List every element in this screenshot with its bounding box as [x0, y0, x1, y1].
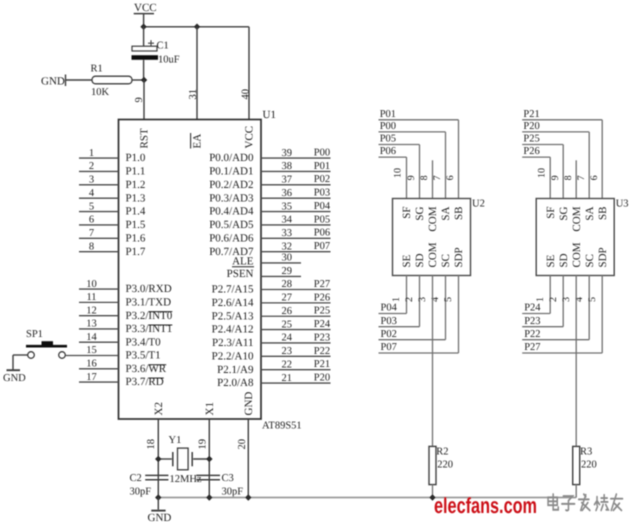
- ground symbol at SP1: [3, 370, 26, 384]
- U1 pin 25 P2.4/A12 net P24: [212, 319, 331, 336]
- pushbutton SP1: [26, 329, 67, 358]
- U1 pin 5 P1.4: [79, 201, 146, 217]
- svg-text:EA: EA: [192, 134, 204, 149]
- svg-text:22: 22: [282, 359, 293, 370]
- U1 pin 37 P0.2/AD2 net P02: [209, 174, 330, 191]
- svg-text:P25: P25: [314, 306, 330, 317]
- svg-text:SD: SD: [414, 253, 426, 267]
- wire VCC rail to pin 40 branch: [144, 26, 249, 28]
- svg-text:P1.3: P1.3: [126, 192, 146, 204]
- ground symbol at crystal: [148, 498, 172, 525]
- svg-text:GND: GND: [148, 512, 172, 524]
- svg-text:X1: X1: [204, 402, 216, 415]
- svg-text:9: 9: [406, 175, 417, 180]
- svg-text:P1.4: P1.4: [126, 206, 146, 218]
- svg-text:P03: P03: [381, 316, 397, 327]
- U1 pin 30 ALE: [232, 253, 301, 268]
- svg-text:220: 220: [581, 460, 597, 471]
- svg-text:R3: R3: [580, 447, 592, 458]
- svg-text:PSEN: PSEN: [227, 268, 254, 280]
- junction crystal right: [206, 456, 213, 463]
- svg-text:32: 32: [282, 241, 293, 252]
- U1 pin 24 P2.3/A11 net P23: [212, 332, 330, 349]
- svg-text:SC: SC: [584, 254, 596, 267]
- svg-text:P20: P20: [314, 372, 330, 383]
- net P21 wire to U3 pin 6: [522, 109, 602, 199]
- U2 COM top stub pin 8: [419, 160, 432, 198]
- svg-text:220: 220: [437, 460, 453, 471]
- svg-text:P05: P05: [380, 134, 396, 145]
- svg-text:11: 11: [86, 292, 96, 303]
- svg-text:SDP: SDP: [453, 247, 465, 267]
- svg-text:29: 29: [282, 266, 293, 277]
- svg-text:26: 26: [282, 306, 293, 317]
- svg-text:COM: COM: [571, 242, 583, 267]
- svg-text:8: 8: [89, 241, 94, 252]
- U1 pin 11 P3.1/TXD: [79, 292, 171, 308]
- net P05 wire to U2 pin 9: [379, 134, 420, 199]
- svg-text:U1: U1: [263, 109, 276, 121]
- svg-text:VCC: VCC: [244, 126, 256, 149]
- svg-text:5: 5: [443, 297, 454, 302]
- svg-text:SA: SA: [440, 206, 452, 220]
- net P01 wire to U2 pin 6: [379, 109, 459, 199]
- U1 pin 19 wire (X1) with number: [198, 419, 210, 498]
- U1 pin 39 P0.0/AD0 net P00: [209, 148, 330, 165]
- svg-text:2: 2: [404, 297, 415, 302]
- U1 pin 16 P3.6/WR: [79, 358, 167, 374]
- svg-text:34: 34: [282, 215, 293, 226]
- connector U2 (7-seg display): [393, 199, 485, 276]
- svg-text:P26: P26: [314, 292, 330, 303]
- net P06 wire to U2 pin 10: [379, 146, 407, 198]
- svg-text:SDP: SDP: [597, 247, 609, 267]
- svg-text:P22: P22: [314, 346, 330, 357]
- U1 pin 1 P1.0: [79, 148, 146, 164]
- svg-text:36: 36: [282, 188, 293, 199]
- svg-text:P21: P21: [523, 109, 539, 120]
- junction bus pin20: [245, 494, 252, 501]
- wire VCC rail to pin 40 with number 40: [240, 27, 251, 120]
- svg-text:P27: P27: [524, 342, 540, 353]
- svg-text:P04: P04: [314, 201, 331, 212]
- net P00 wire to U2 pin 7: [379, 121, 446, 199]
- svg-text:GND: GND: [41, 76, 65, 88]
- resistor R1 10K: [66, 64, 144, 99]
- svg-text:P26: P26: [523, 146, 539, 157]
- svg-text:P06: P06: [314, 228, 330, 239]
- svg-text:SG: SG: [558, 206, 570, 220]
- U1 pin 28 P2.7/A15 net P27: [212, 279, 331, 296]
- wire EA rail to pin 31 with number 31: [188, 27, 199, 120]
- svg-text:6: 6: [89, 215, 94, 226]
- svg-text:30pF: 30pF: [130, 487, 152, 498]
- svg-text:P1.6: P1.6: [126, 232, 146, 244]
- svg-text:6: 6: [445, 175, 456, 180]
- U1 pin 20 wire (GND) with number: [237, 419, 249, 498]
- net P25 wire to U3 pin 9: [522, 134, 563, 199]
- svg-text:P22: P22: [524, 329, 540, 340]
- svg-text:COM: COM: [427, 242, 439, 267]
- svg-text:P02: P02: [314, 174, 330, 185]
- svg-text:8: 8: [419, 175, 430, 180]
- svg-text:P0.1/AD1: P0.1/AD1: [209, 166, 253, 178]
- svg-text:P07: P07: [381, 342, 397, 353]
- svg-text:Y1: Y1: [169, 435, 182, 446]
- resistor R2 220: [429, 446, 453, 497]
- svg-text:SA: SA: [584, 206, 596, 220]
- net P24 wire to U3 pin 1: [522, 276, 550, 314]
- svg-text:R1: R1: [91, 64, 103, 75]
- junction bus X2: [155, 494, 162, 501]
- svg-text:SE: SE: [401, 254, 413, 267]
- U1 pin 32 P0.7/AD7 net P07: [209, 241, 330, 258]
- U1 pin 13 P3.3/INT1: [79, 319, 172, 335]
- svg-text:P04: P04: [381, 303, 398, 314]
- U1 pin 34 P0.5/AD5 net P05: [209, 214, 330, 231]
- capacitor C1 (10uF) with plus mark: [132, 27, 180, 80]
- svg-text:7: 7: [89, 228, 94, 239]
- svg-text:31: 31: [188, 89, 199, 100]
- svg-text:9: 9: [550, 175, 561, 180]
- svg-text:3: 3: [89, 175, 94, 186]
- svg-text:10uF: 10uF: [158, 55, 180, 66]
- U1 pin 36 P0.3/AD3 net P03: [209, 188, 330, 205]
- svg-text:P0.4/AD4: P0.4/AD4: [209, 206, 254, 218]
- svg-text:6: 6: [589, 175, 600, 180]
- net P27 wire to U3 pin 5: [522, 276, 602, 354]
- svg-text:30pF: 30pF: [222, 487, 244, 498]
- net P22 wire to U3 pin 4: [522, 276, 589, 340]
- svg-text:4: 4: [89, 188, 95, 199]
- U1 pin 18 wire (X2) with number: [146, 419, 158, 498]
- svg-text:SE: SE: [545, 254, 557, 267]
- net P02 wire to U2 pin 4: [379, 276, 446, 340]
- capacitor C2 30pF: [130, 473, 169, 498]
- svg-text:2: 2: [548, 297, 559, 302]
- svg-text:20: 20: [237, 439, 248, 450]
- svg-text:24: 24: [282, 333, 293, 344]
- svg-text:GND: GND: [243, 392, 255, 416]
- U1 pin 33 P0.6/AD6 net P06: [209, 228, 330, 245]
- svg-text:P2.5/A13: P2.5/A13: [212, 310, 254, 322]
- connector U3 (7-seg display): [536, 199, 628, 276]
- svg-text:23: 23: [282, 346, 293, 357]
- svg-text:37: 37: [282, 175, 293, 186]
- svg-text:18: 18: [146, 439, 157, 450]
- svg-text:AT89S51: AT89S51: [262, 421, 302, 432]
- svg-text:P02: P02: [381, 329, 397, 340]
- svg-text:SC: SC: [440, 254, 452, 267]
- svg-text:12: 12: [86, 305, 97, 316]
- svg-text:25: 25: [282, 319, 293, 330]
- svg-text:SP1: SP1: [26, 329, 43, 340]
- resistor R3 220: [573, 446, 597, 497]
- U3 COM top stub pin 8: [563, 160, 576, 198]
- svg-text:P0.0/AD0: P0.0/AD0: [209, 152, 254, 164]
- svg-text:P21: P21: [314, 359, 330, 370]
- net P03 wire to U2 pin 2: [379, 276, 420, 327]
- U1 pin 7 P1.6: [79, 228, 146, 244]
- svg-text:P0.6/AD6: P0.6/AD6: [209, 232, 254, 244]
- svg-text:R2: R2: [436, 447, 448, 458]
- svg-text:P3.0/RXD: P3.0/RXD: [126, 283, 172, 295]
- svg-text:P03: P03: [314, 188, 330, 199]
- net P04 wire to U2 pin 1: [379, 276, 407, 314]
- wire RST node to pin 9 with number 9: [134, 80, 145, 120]
- U1 pin 2 P1.1: [79, 161, 145, 177]
- svg-text:7: 7: [576, 175, 587, 180]
- svg-text:P23: P23: [314, 332, 330, 343]
- svg-text:1: 1: [89, 148, 94, 159]
- svg-text:15: 15: [86, 345, 97, 356]
- svg-text:30: 30: [282, 253, 293, 264]
- wire SP1 to GND: [13, 355, 28, 370]
- svg-text:16: 16: [86, 358, 97, 369]
- U2 COM bottom wire pin 3 to resistor: [417, 276, 432, 447]
- svg-text:P20: P20: [523, 121, 539, 132]
- svg-text:5: 5: [587, 297, 598, 302]
- svg-text:SB: SB: [597, 207, 609, 220]
- net P20 wire to U3 pin 7: [522, 121, 589, 199]
- svg-text:P0.3/AD3: P0.3/AD3: [209, 192, 254, 204]
- U1 pin 27 P2.6/A14 net P26: [212, 292, 331, 309]
- svg-text:elecfans.com: elecfans.com: [434, 493, 537, 518]
- svg-text:P23: P23: [524, 316, 540, 327]
- svg-text:1: 1: [391, 297, 402, 302]
- svg-text:39: 39: [282, 148, 293, 159]
- svg-text:1: 1: [535, 297, 546, 302]
- power symbol VCC: [134, 2, 157, 27]
- U1 pin 12 P3.2/INT0: [79, 305, 173, 321]
- svg-text:P3.1/TXD: P3.1/TXD: [126, 296, 172, 308]
- svg-text:3: 3: [561, 297, 572, 302]
- U1 pin 8 P1.7: [79, 241, 146, 257]
- junction crystal left: [155, 456, 162, 463]
- U1 pin 15 P3.5/T1: [66, 345, 161, 361]
- svg-text:10K: 10K: [91, 87, 110, 98]
- svg-text:38: 38: [282, 161, 293, 172]
- junction RST node: [141, 77, 148, 84]
- svg-text:SF: SF: [545, 207, 557, 219]
- junction bus R2: [429, 494, 436, 501]
- svg-text:P24: P24: [524, 303, 541, 314]
- svg-text:P2.6/A14: P2.6/A14: [212, 297, 254, 309]
- svg-text:P1.5: P1.5: [126, 219, 146, 231]
- svg-text:P2.1/A9: P2.1/A9: [217, 364, 254, 376]
- net P07 wire to U2 pin 5: [379, 276, 459, 354]
- U1 pin 10 P3.0/RXD: [79, 279, 172, 295]
- U1 pin 21 P2.0/A8 net P20: [217, 372, 330, 389]
- svg-text:COM: COM: [571, 206, 583, 231]
- svg-text:C2: C2: [130, 473, 142, 484]
- ic U1 AT89S51 body: [119, 109, 302, 432]
- svg-text:P1.2: P1.2: [126, 179, 146, 191]
- svg-text:P1.7: P1.7: [126, 246, 146, 258]
- svg-text:10: 10: [393, 168, 404, 178]
- U1 pin 17 P3.7/RD: [79, 372, 164, 388]
- svg-text:10: 10: [536, 168, 547, 178]
- svg-text:P06: P06: [380, 146, 396, 157]
- svg-text:P0.5/AD5: P0.5/AD5: [209, 219, 254, 231]
- logo Chinese text dian zi fa shao you: [548, 494, 622, 510]
- svg-text:P00: P00: [314, 148, 330, 159]
- svg-text:GND: GND: [3, 373, 26, 384]
- svg-text:SD: SD: [558, 253, 570, 267]
- svg-text:40: 40: [240, 89, 251, 100]
- svg-text:P00: P00: [380, 121, 396, 132]
- svg-text:8: 8: [563, 175, 574, 180]
- svg-text:28: 28: [282, 279, 293, 290]
- svg-text:5: 5: [89, 201, 94, 212]
- svg-text:P3.4/T0: P3.4/T0: [126, 336, 162, 348]
- svg-text:P25: P25: [523, 134, 539, 145]
- svg-text:P2.4/A12: P2.4/A12: [212, 324, 254, 336]
- ground bus wire: [158, 497, 576, 499]
- svg-text:U2: U2: [472, 199, 485, 210]
- svg-text:U3: U3: [616, 199, 629, 210]
- net P23 wire to U3 pin 2: [522, 276, 563, 327]
- svg-text:P2.3/A11: P2.3/A11: [212, 337, 253, 349]
- svg-text:X2: X2: [153, 402, 165, 415]
- junction at EA branch: [194, 24, 201, 31]
- svg-text:P3.5/T1: P3.5/T1: [126, 350, 161, 362]
- U1 pin 4 P1.3: [79, 188, 146, 204]
- svg-text:P1.0: P1.0: [126, 152, 146, 164]
- svg-text:P07: P07: [314, 241, 330, 252]
- U1 pin 14 P3.4/T0: [79, 332, 161, 348]
- junction bus X1: [206, 494, 213, 501]
- svg-text:9: 9: [134, 97, 145, 102]
- svg-text:ALE: ALE: [232, 255, 254, 267]
- U1 pin 26 P2.5/A13 net P25: [212, 306, 331, 323]
- svg-text:VCC: VCC: [134, 2, 157, 14]
- U1 pin 38 P0.1/AD1 net P01: [209, 161, 330, 178]
- junction at VCC stem: [140, 24, 147, 31]
- svg-text:13: 13: [86, 319, 97, 330]
- U1 pin 29 PSEN: [227, 266, 301, 280]
- U1 pin 3 P1.2: [79, 175, 145, 191]
- svg-text:19: 19: [198, 439, 209, 450]
- pin name EA with overline (rotated): [191, 133, 204, 149]
- svg-text:P1.1: P1.1: [126, 166, 146, 178]
- svg-text:33: 33: [282, 228, 293, 239]
- U1 pin 6 P1.5: [79, 215, 146, 231]
- U1 pin 35 P0.4/AD4 net P04: [209, 201, 331, 218]
- U1 pin 23 P2.2/A10 net P22: [212, 346, 331, 363]
- svg-text:17: 17: [86, 372, 97, 383]
- svg-text:P2.0/A8: P2.0/A8: [217, 377, 254, 389]
- U1 pin 22 P2.1/A9 net P21: [217, 359, 330, 376]
- ground terminal GND (left of R1): [41, 75, 66, 88]
- U3 COM bottom wire pin 3 to resistor: [561, 276, 576, 447]
- svg-text:P01: P01: [314, 161, 330, 172]
- svg-text:14: 14: [86, 332, 97, 343]
- crystal Y1 12MHz: [158, 435, 209, 485]
- svg-text:P2.7/A15: P2.7/A15: [212, 284, 254, 296]
- svg-text:P01: P01: [380, 109, 396, 120]
- svg-text:SF: SF: [401, 207, 413, 219]
- svg-text:7: 7: [432, 175, 443, 180]
- svg-text:2: 2: [89, 161, 94, 172]
- svg-text:27: 27: [282, 293, 293, 304]
- svg-text:P24: P24: [314, 319, 331, 330]
- svg-text:P2.2/A10: P2.2/A10: [212, 350, 254, 362]
- capacitor C3 30pF: [196, 473, 243, 498]
- svg-text:SB: SB: [453, 207, 465, 220]
- svg-text:COM: COM: [427, 206, 439, 231]
- net P26 wire to U3 pin 10: [522, 146, 550, 198]
- svg-text:C1: C1: [157, 41, 169, 52]
- svg-text:P27: P27: [314, 279, 330, 290]
- svg-text:P0.2/AD2: P0.2/AD2: [209, 179, 253, 191]
- svg-text:SG: SG: [414, 206, 426, 220]
- svg-text:35: 35: [282, 201, 293, 212]
- svg-text:21: 21: [282, 373, 293, 384]
- svg-text:P05: P05: [314, 214, 330, 225]
- svg-text:3: 3: [417, 297, 428, 302]
- svg-text:10: 10: [86, 279, 97, 290]
- svg-text:RST: RST: [139, 128, 151, 148]
- svg-text:C3: C3: [222, 473, 234, 484]
